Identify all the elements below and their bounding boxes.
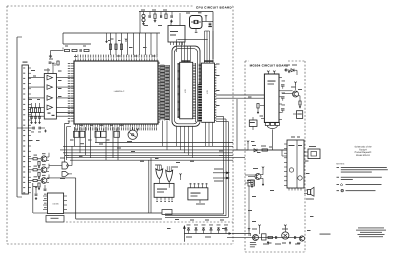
svg-text:CPU CIRCUIT BOARD: CPU CIRCUIT BOARD (196, 5, 232, 9)
svg-text:Schematic of the: Schematic of the (354, 146, 372, 149)
svg-text:LH5801A-2: LH5801A-2 (114, 90, 125, 93)
svg-text:MG504 CIRCUIT BOARD: MG504 CIRCUIT BOARD (250, 63, 289, 67)
svg-text:Tandy®: Tandy® (359, 148, 367, 151)
svg-text:Pocket Repeat®: Pocket Repeat® (355, 151, 372, 154)
svg-text:LCD: LCD (184, 88, 187, 93)
svg-text:LCD: LCD (206, 89, 209, 94)
svg-text:NOTES:: NOTES: (336, 162, 345, 165)
svg-text:Model MG-51: Model MG-51 (356, 154, 371, 157)
svg-text:LM386: LM386 (52, 203, 59, 206)
